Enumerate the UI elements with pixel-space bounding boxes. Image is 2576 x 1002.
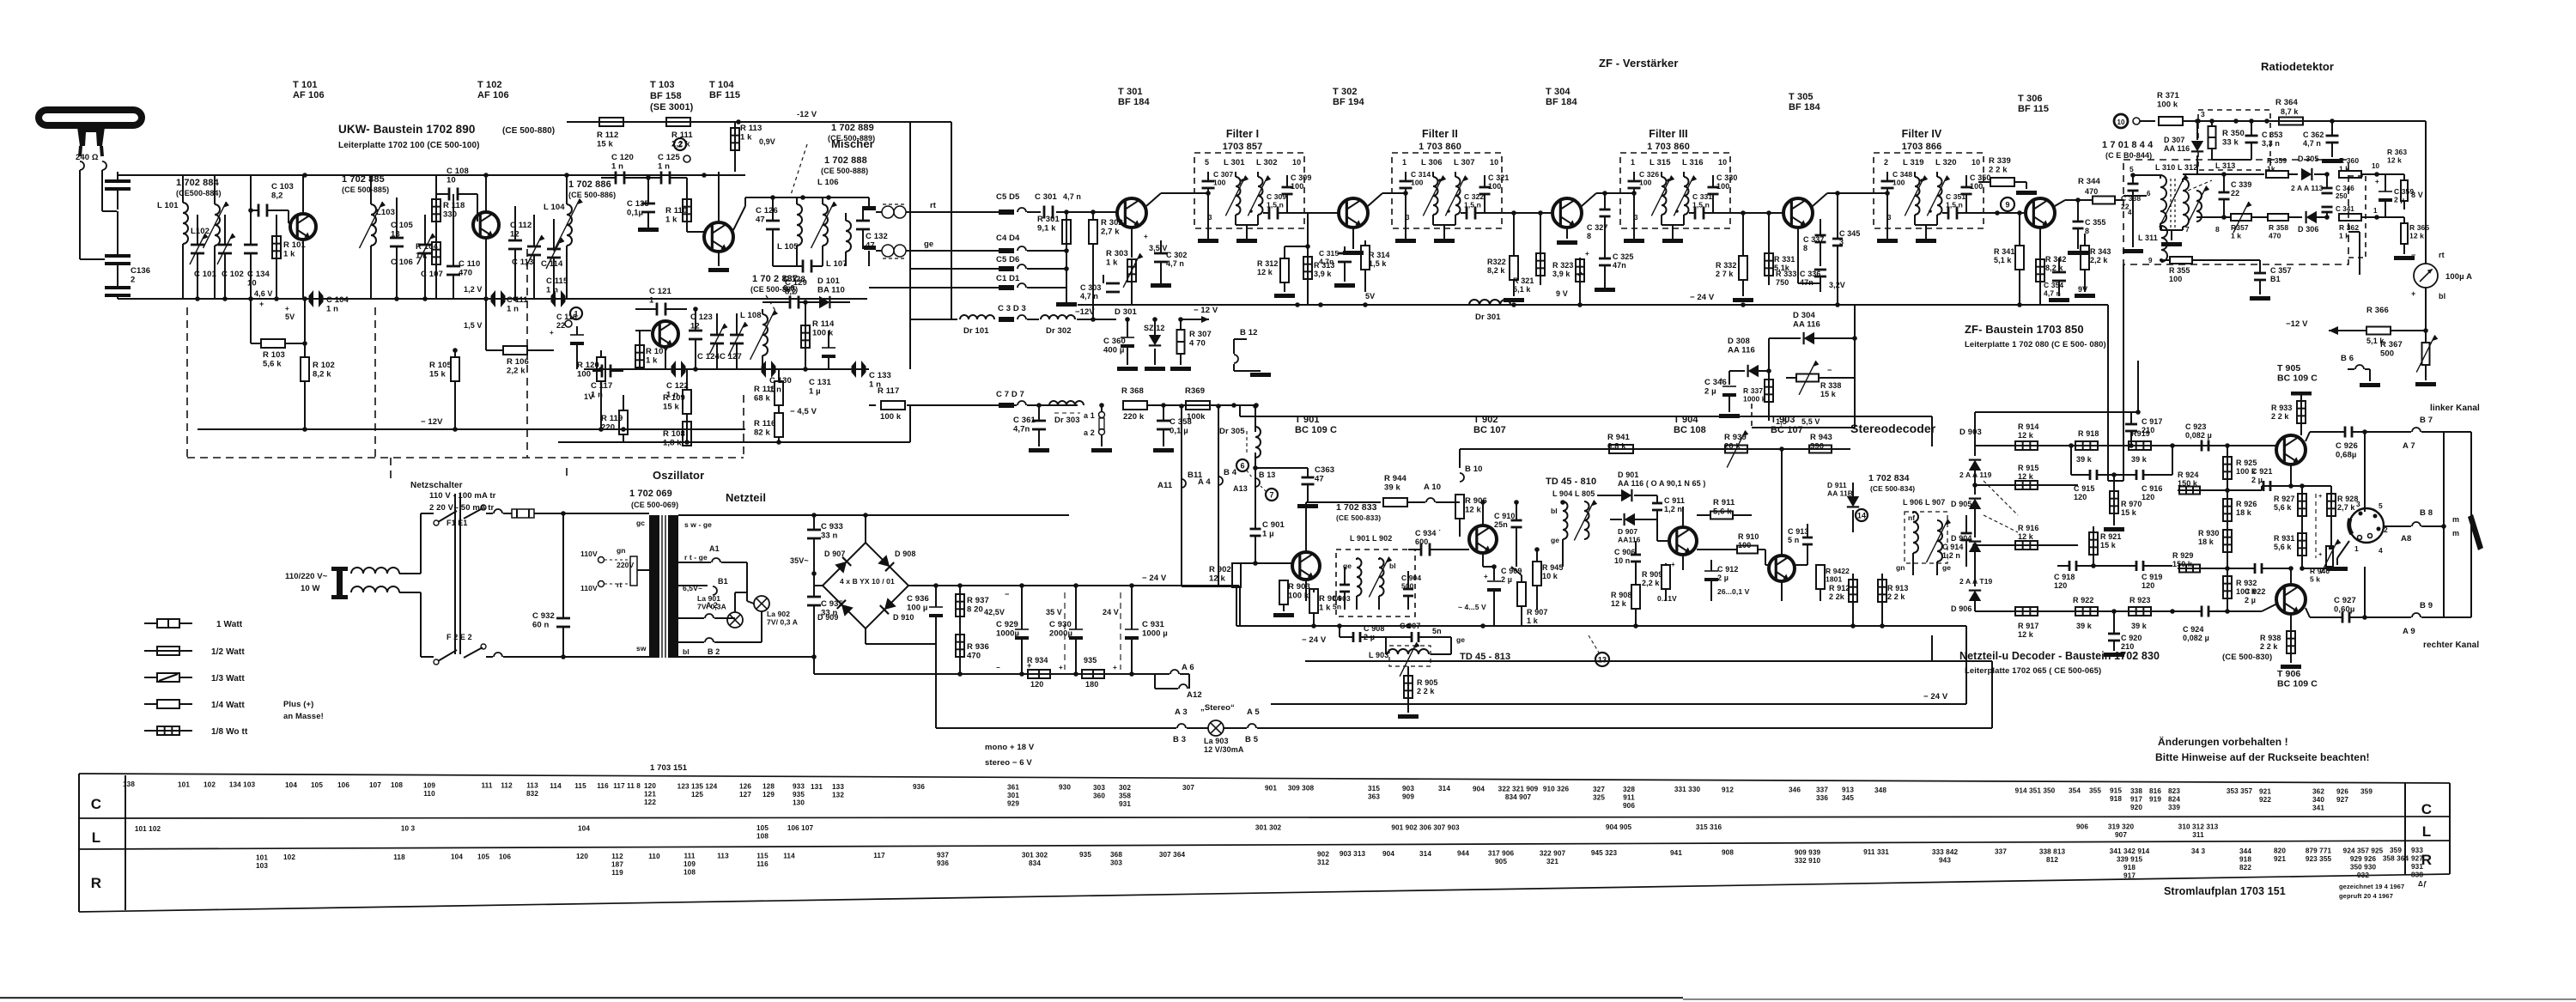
svg-text:919: 919 [2149, 795, 2161, 803]
resistor R906 [1455, 494, 1487, 537]
svg-text:C 101: C 101 [194, 270, 216, 279]
svg-text:C 124: C 124 [697, 352, 720, 361]
svg-text:310 312 313: 310 312 313 [2178, 823, 2219, 830]
svg-text:133: 133 [832, 783, 844, 791]
svg-text:C5 D6: C5 D6 [996, 255, 1019, 264]
table row divider C/L [79, 817, 2450, 818]
resistor R307 [1170, 317, 1212, 371]
resistor R115 [754, 369, 783, 412]
capacitor C919 [2091, 561, 2172, 590]
svg-text:937: 937 [937, 852, 949, 859]
TD45-810 label [1546, 477, 1596, 498]
matrix top feed [1975, 395, 2141, 446]
pot R940 [2302, 539, 2341, 583]
svg-text:106: 106 [499, 853, 511, 860]
svg-text:AA 116: AA 116 [1793, 320, 1820, 330]
svg-text:R 934: R 934 [1027, 656, 1048, 665]
ratio detector dashed box [2123, 110, 2366, 264]
transistor T301 [1116, 193, 1194, 258]
trimmer C124 [697, 313, 728, 369]
svg-text:C 353: C 353 [2262, 131, 2283, 139]
svg-text:1,5 k: 1,5 k [1369, 259, 1387, 268]
table label L left [92, 829, 100, 846]
svg-text:921: 921 [2259, 787, 2271, 795]
svg-text:C 906: C 906 [1614, 548, 1636, 556]
header Ratiodetektor [2261, 60, 2334, 73]
svg-text:4,7 n: 4,7 n [2303, 139, 2321, 148]
label C1 D1 [996, 274, 1020, 283]
svg-text:C 337: C 337 [1803, 235, 1825, 244]
svg-text:39 k: 39 k [2131, 622, 2148, 630]
right vertical from ratio [2137, 361, 2139, 395]
svg-text:9,1 k: 9,1 k [1037, 224, 1056, 234]
svg-text:138: 138 [123, 780, 135, 788]
svg-text:4,7 n: 4,7 n [2044, 289, 2061, 298]
svg-text:113: 113 [717, 853, 729, 860]
-12V arrow [1181, 316, 1209, 323]
svg-text:R 114: R 114 [812, 319, 835, 329]
svg-text:1 n: 1 n [546, 286, 558, 295]
svg-text:C 360: C 360 [1103, 337, 1126, 346]
svg-text:L 315: L 315 [1649, 158, 1671, 167]
trimmer capacitor C113 [512, 215, 545, 299]
table L row numbers [135, 823, 2219, 840]
svg-text:rechter Kanal: rechter Kanal [2423, 641, 2479, 650]
svg-text:C 922: C 922 [2245, 587, 2266, 596]
svg-text:362: 362 [2312, 788, 2324, 796]
svg-text:100: 100 [1970, 182, 1983, 191]
svg-text:921: 921 [2274, 855, 2286, 863]
resistor R908 [1611, 584, 1677, 626]
bias cluster after filter I [1257, 213, 1390, 305]
bridge output [908, 574, 1239, 588]
svg-text:T 101: T 101 [293, 80, 318, 90]
test point 10 [2114, 114, 2155, 128]
svg-text:109: 109 [683, 860, 696, 868]
svg-text:834: 834 [1029, 859, 1041, 867]
label C5 D5 [996, 192, 1081, 202]
svg-text:4,7 n: 4,7 n [1166, 259, 1184, 268]
svg-text:UKW- Baustein 1702 890: UKW- Baustein 1702 890 [338, 123, 476, 136]
svg-text:358 364: 358 364 [2383, 855, 2409, 863]
svg-text:309 308: 309 308 [1288, 785, 1315, 792]
svg-text:R 921: R 921 [2100, 532, 2122, 541]
capacitor C913 [1788, 524, 1813, 565]
label 110/220V [285, 572, 328, 593]
svg-text:D 305: D 305 [2298, 155, 2319, 163]
resistor R929 [2172, 551, 2227, 573]
svg-text:− 24 V: − 24 V [1142, 574, 1167, 583]
svg-text:132: 132 [832, 791, 844, 799]
capacitor C130 [762, 361, 792, 395]
svg-text:C 914: C 914 [1942, 543, 1964, 551]
svg-text:120: 120 [2142, 493, 2154, 501]
svg-text:39 k: 39 k [2076, 622, 2093, 630]
resistor R355 [2161, 257, 2260, 283]
svg-text:333 842: 333 842 [1932, 848, 1959, 856]
svg-text:1,5 n: 1,5 n [1267, 201, 1284, 210]
svg-text:C 114: C 114 [541, 259, 563, 269]
svg-text:120: 120 [644, 782, 656, 790]
svg-text:359: 359 [2360, 788, 2372, 796]
svg-text:L 108: L 108 [740, 311, 762, 320]
svg-text:879 771: 879 771 [2306, 847, 2332, 854]
coil L105 [777, 197, 802, 266]
svg-text:10: 10 [2117, 118, 2125, 126]
svg-text:100k: 100k [1187, 412, 1206, 422]
svg-text:BC 108: BC 108 [1674, 425, 1706, 435]
svg-text:2,2 k: 2,2 k [507, 367, 526, 376]
svg-text:+: + [1585, 250, 1589, 258]
svg-text:−: − [996, 664, 1000, 671]
transistor T904 [1657, 507, 1697, 570]
svg-text:R 939: R 939 [1724, 433, 1747, 442]
capacitor C934 [1408, 529, 1455, 556]
svg-text:nf: nf [1908, 513, 1915, 522]
svg-text:T 102: T 102 [477, 80, 502, 90]
capacitor C916 [2114, 446, 2172, 501]
coil L103 with trimmer [360, 175, 396, 299]
tuner mid rail [118, 296, 867, 301]
svg-text:Ratiodetektor: Ratiodetektor [2261, 60, 2334, 73]
svg-text:5: 5 [2379, 501, 2383, 510]
svg-text:832: 832 [526, 790, 538, 798]
svg-text:935: 935 [1079, 851, 1091, 859]
svg-text:R 358: R 358 [2269, 223, 2288, 232]
svg-text:13: 13 [1598, 656, 1607, 665]
svg-text:8: 8 [1803, 244, 1807, 252]
svg-text:La 902: La 902 [767, 610, 790, 618]
svg-text:3,2V: 3,2V [1829, 281, 1845, 289]
capacitor C360 [1103, 317, 1138, 371]
hinweis text [2155, 735, 2370, 763]
resistor R337 [1743, 368, 1773, 421]
svg-text:470: 470 [967, 652, 981, 661]
transistor T101 [289, 175, 316, 299]
svg-text:3: 3 [1839, 238, 1844, 246]
svg-text:rt: rt [617, 580, 622, 589]
svg-text:C 346: C 346 [2336, 185, 2354, 192]
feedthrough capacitor C104 [309, 290, 349, 314]
svg-text:315 316: 315 316 [1696, 823, 1722, 831]
svg-text:500: 500 [1401, 582, 1414, 591]
label C136 [131, 266, 150, 285]
svg-text:C 7 D 7: C 7 D 7 [996, 390, 1024, 399]
svg-text:22: 22 [2231, 189, 2239, 197]
svg-text:354: 354 [2069, 787, 2081, 795]
svg-text:302: 302 [1119, 784, 1131, 792]
svg-text:390: 390 [1810, 442, 1824, 452]
header ZF-Verstaerker [1599, 57, 1679, 70]
svg-text:R919: R919 [2131, 429, 2150, 438]
svg-text:3,3 n: 3,3 n [2262, 139, 2280, 148]
svg-text:106 107: 106 107 [787, 824, 814, 832]
svg-text:D 901: D 901 [1618, 471, 1639, 479]
svg-text:10: 10 [1292, 158, 1301, 167]
svg-text:C 314: C 314 [1411, 170, 1431, 179]
svg-text:1 k: 1 k [1527, 616, 1539, 625]
svg-text:R 970: R 970 [2121, 500, 2142, 508]
svg-text:12 k: 12 k [1465, 506, 1482, 515]
capacitor C136 input series caps [80, 172, 131, 299]
svg-text:0,9V: 0,9V [759, 137, 775, 146]
svg-text:60 n: 60 n [532, 621, 550, 630]
svg-text:15 k: 15 k [597, 140, 614, 149]
capacitor C116 [550, 313, 584, 369]
svg-text:944: 944 [1457, 850, 1469, 858]
svg-text:355: 355 [2089, 787, 2101, 795]
svg-text:904: 904 [1382, 850, 1394, 858]
svg-text:R 945: R 945 [1542, 563, 1564, 572]
svg-text:TD 45 - 813: TD 45 - 813 [1460, 652, 1510, 662]
svg-text:1 k: 1 k [1106, 258, 1118, 268]
svg-text:301: 301 [1007, 792, 1019, 799]
trafo label [429, 491, 496, 513]
svg-text:C 350: C 350 [1970, 173, 1991, 182]
svg-text:10 W: 10 W [301, 584, 320, 593]
-24V to decoder [935, 644, 937, 678]
svg-text:+: + [1671, 561, 1675, 568]
capacitor C933 [807, 515, 843, 574]
capacitor C930 [1049, 583, 1083, 674]
svg-text:1: 1 [1631, 158, 1635, 167]
resistor R915 [1972, 464, 2078, 489]
matrix dashed links [1984, 481, 2018, 532]
svg-text:D 101: D 101 [817, 276, 840, 286]
svg-text:C 103: C 103 [271, 182, 294, 191]
svg-text:918: 918 [2239, 855, 2251, 863]
capacitor C303 [1080, 275, 1120, 301]
svg-text:gc: gc [636, 519, 645, 527]
svg-text:1 703 860: 1 703 860 [1647, 142, 1690, 152]
svg-text:gn: gn [617, 546, 626, 555]
svg-text:4,7n: 4,7n [1319, 258, 1334, 266]
oscillator rail [584, 367, 869, 372]
resistor R120 [577, 350, 605, 429]
antenna lead-in wires [80, 170, 117, 259]
capacitor C128 [773, 260, 823, 294]
resistor R365 [2377, 217, 2429, 260]
svg-text:933: 933 [2411, 847, 2423, 854]
svg-text:1000 k: 1000 k [1743, 395, 1766, 404]
svg-text:C 354: C 354 [2044, 281, 2063, 289]
svg-text:150 k: 150 k [2178, 479, 2198, 488]
svg-text:332 910: 332 910 [1795, 857, 1821, 865]
svg-text:307: 307 [1182, 784, 1194, 792]
capacitor C920 [2104, 609, 2142, 657]
label T902 [1473, 415, 1506, 435]
svg-text:BF 158: BF 158 [650, 91, 682, 101]
svg-text:5,6 k: 5,6 k [1713, 507, 1732, 517]
svg-text:8: 8 [2215, 225, 2220, 234]
svg-text:125: 125 [691, 791, 703, 799]
svg-text:10 n: 10 n [1614, 556, 1630, 565]
svg-text:104: 104 [578, 824, 590, 832]
pin 3 [2201, 110, 2205, 118]
hook B9 A9 [2403, 601, 2471, 636]
svg-text:C 348: C 348 [1893, 170, 1912, 179]
svg-text:9: 9 [2005, 201, 2009, 210]
svg-text:Filter IV: Filter IV [1902, 128, 1942, 140]
svg-text:12 k: 12 k [2387, 156, 2402, 165]
svg-text:2 2 k: 2 2 k [1887, 592, 1905, 601]
svg-text:6: 6 [1240, 462, 1244, 471]
hook B7 A7 [2403, 416, 2471, 451]
svg-text:8,2 k: 8,2 k [2045, 264, 2063, 272]
resistor R103 [251, 299, 307, 369]
svg-text:L 306: L 306 [1421, 158, 1443, 167]
svg-text:R 915: R 915 [2018, 464, 2039, 472]
svg-text:100: 100 [1738, 541, 1751, 550]
svg-text:B 2: B 2 [708, 647, 720, 656]
svg-text:15 k: 15 k [2121, 508, 2137, 517]
resistor R926 [2223, 488, 2257, 526]
transistor T305 [1736, 191, 1874, 239]
mixer top -12V rail [599, 110, 951, 124]
svg-text:35V~: 35V~ [790, 556, 809, 565]
svg-text:341: 341 [2312, 805, 2324, 812]
voltage 1,2V [464, 285, 483, 294]
resistor R114 [801, 300, 835, 369]
svg-text:a 2: a 2 [1084, 428, 1095, 437]
svg-text:C 931: C 931 [1142, 620, 1164, 629]
svg-text:2,7 k: 2,7 k [2337, 503, 2355, 512]
svg-text:25n: 25n [1494, 520, 1508, 529]
svg-text:T 304: T 304 [1546, 87, 1571, 97]
svg-text:Dr 101: Dr 101 [963, 326, 989, 336]
B10 hook [1460, 465, 1482, 482]
coil L102 with trimmer [191, 175, 229, 299]
svg-text:C5 D5: C5 D5 [996, 192, 1020, 202]
svg-text:T 906: T 906 [2277, 669, 2300, 679]
decoder module label [1959, 650, 2272, 676]
transistor T104 oscillator [635, 321, 678, 369]
voltage label 4,6V [254, 289, 273, 308]
voltage 1,5V [464, 321, 483, 330]
decoder module outline [1240, 405, 1992, 661]
svg-text:904: 904 [1473, 785, 1485, 792]
resistor R934 [1027, 656, 1050, 689]
svg-text:1 k: 1 k [1319, 604, 1331, 613]
svg-text:R 109: R 109 [663, 393, 685, 403]
meter 100uA [2411, 121, 2472, 313]
capacitor C126 [756, 197, 780, 266]
resistor R910 [1697, 532, 1765, 554]
diode D901 [1597, 471, 1705, 501]
NF line to deemphasis [2123, 264, 2124, 265]
svg-text:359: 359 [2390, 847, 2402, 854]
svg-text:C 106: C 106 [391, 258, 413, 267]
resistor R363 [2377, 148, 2408, 210]
svg-text:932: 932 [2357, 871, 2369, 879]
svg-text:10 3: 10 3 [401, 825, 416, 833]
diode D304 [1769, 305, 1857, 395]
svg-text:341 342 914: 341 342 914 [2110, 847, 2150, 855]
svg-text:3: 3 [2201, 110, 2205, 118]
resistor R904 [1309, 589, 1341, 626]
svg-text:bl: bl [2439, 292, 2445, 301]
svg-text:2: 2 [1884, 158, 1888, 167]
svg-text:R 9422: R 9422 [1826, 567, 1850, 575]
19kHz trap C908 [1337, 623, 1384, 642]
table outer border [79, 774, 2450, 912]
transistor T103 mixer [687, 172, 733, 272]
svg-text:100: 100 [577, 370, 591, 380]
svg-text:C 121: C 121 [649, 287, 671, 296]
svg-text:C 933: C 933 [821, 522, 843, 531]
svg-text:117: 117 [873, 852, 885, 859]
svg-text:150 k: 150 k [2172, 560, 2193, 568]
svg-text:15 k: 15 k [1820, 390, 1837, 398]
svg-text:T 301: T 301 [1118, 87, 1143, 97]
svg-text:319 320: 319 320 [2108, 823, 2135, 830]
svg-text:8 V: 8 V [2411, 191, 2423, 199]
capacitor C132 [856, 206, 888, 251]
svg-text:m: m [2452, 515, 2459, 524]
svg-text:5V: 5V [1365, 292, 1375, 301]
svg-text:42,5V: 42,5V [984, 608, 1005, 616]
bottom scan edge [0, 997, 2576, 1000]
svg-text:105: 105 [477, 853, 489, 860]
resistor R101 [272, 215, 306, 299]
resistor R942 [1816, 565, 1850, 601]
svg-text:134 103: 134 103 [229, 781, 256, 789]
svg-text:A 4: A 4 [1198, 477, 1211, 487]
svg-text:A 3: A 3 [1175, 707, 1188, 717]
diode D306 [2298, 211, 2327, 234]
svg-text:R 339: R 339 [1989, 156, 2011, 166]
svg-text:113: 113 [526, 782, 538, 790]
transformer secondary labels [683, 520, 712, 656]
svg-text:363: 363 [1368, 792, 1380, 800]
svg-text:1 703 151: 1 703 151 [650, 763, 688, 773]
svg-text:914 351 350: 914 351 350 [2015, 786, 2056, 794]
resistor R909 [1642, 561, 1675, 601]
svg-text:1 703 860: 1 703 860 [1419, 142, 1461, 152]
svg-text:317 906: 317 906 [1488, 850, 1515, 858]
capacitor C108 coupling [436, 167, 477, 201]
svg-text:906: 906 [2076, 823, 2088, 830]
svg-text:941: 941 [1670, 849, 1682, 857]
svg-text:812: 812 [2046, 856, 2058, 864]
svg-text:312: 312 [1317, 859, 1329, 866]
svg-text:R 344: R 344 [2078, 177, 2100, 186]
svg-text:100: 100 [1291, 182, 1303, 191]
transistor T306 [1984, 198, 2065, 258]
Oszillator label [653, 469, 704, 482]
svg-text:930: 930 [1059, 784, 1071, 792]
svg-text:911: 911 [1623, 793, 1635, 801]
svg-text:1/4 Watt: 1/4 Watt [211, 701, 245, 710]
resistor R116 [754, 413, 783, 442]
svg-text:R 922: R 922 [2073, 596, 2094, 604]
resistor R108 [663, 422, 691, 448]
feedthrough capacitor C111 [491, 290, 529, 314]
svg-text:8,2: 8,2 [785, 288, 797, 297]
svg-text:108: 108 [756, 833, 769, 841]
svg-text:1k: 1k [2267, 165, 2275, 173]
svg-text:C 934 ˙: C 934 ˙ [1415, 529, 1441, 537]
resistor R928 [2302, 486, 2359, 550]
svg-text:2 A A 119: 2 A A 119 [1959, 471, 1992, 479]
svg-text:+: + [1113, 664, 1117, 671]
svg-text:927: 927 [2336, 796, 2348, 804]
24V label [1103, 592, 1121, 670]
svg-text:2 µ: 2 µ [2245, 596, 2256, 604]
svg-text:131: 131 [811, 783, 823, 791]
svg-text:R 923: R 923 [2129, 596, 2151, 604]
svg-text:BC 107: BC 107 [1771, 425, 1803, 435]
